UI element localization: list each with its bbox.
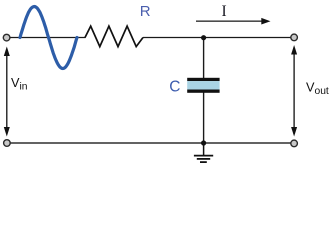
svg-text:Vout: Vout	[306, 81, 329, 97]
wire top-left: input terminal to resistor	[10, 37, 86, 39]
Vout arrow head down	[291, 127, 297, 137]
svg-text:R: R	[140, 3, 151, 20]
terminal input bottom	[4, 140, 11, 147]
capacitor C dielectric fill	[187, 81, 219, 89]
node A junction dot top	[201, 35, 206, 40]
wire top-right: resistor to node A and output terminal	[143, 37, 291, 39]
ground bar 1	[194, 155, 213, 157]
ground stub	[203, 143, 205, 155]
capacitor C bottom plate	[187, 90, 219, 93]
Vout arrow head up	[291, 45, 297, 55]
ground bar 3	[200, 161, 207, 163]
wire bottom rail	[10, 142, 291, 144]
wire capacitor branch lower	[203, 92, 205, 143]
current arrow I line	[196, 20, 263, 22]
terminal input top	[3, 34, 10, 41]
Vout measure arrow line	[293, 48, 295, 135]
node junction dot bottom	[201, 140, 206, 145]
Vin arrow head up	[4, 47, 10, 57]
ground bar 2	[197, 158, 210, 160]
svg-text:C: C	[169, 78, 180, 95]
Vin measure arrow line	[6, 49, 8, 134]
current arrow I head	[261, 18, 270, 25]
resistor R	[85, 26, 143, 46]
Vin arrow head down	[4, 127, 10, 137]
svg-text:Vin: Vin	[11, 76, 28, 92]
AC source sine wave	[20, 7, 77, 69]
svg-text:I: I	[222, 3, 227, 20]
terminal output bottom	[291, 140, 298, 147]
terminal output top	[291, 34, 298, 41]
capacitor C top plate	[187, 78, 219, 81]
wire capacitor branch upper	[203, 38, 205, 79]
